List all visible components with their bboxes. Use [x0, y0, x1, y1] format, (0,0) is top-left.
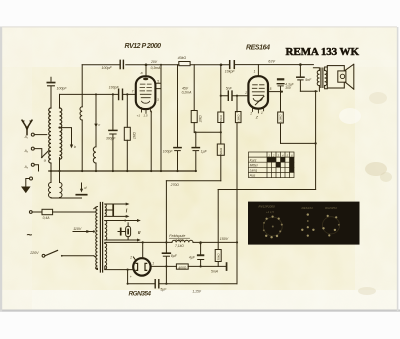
switch a	[42, 151, 49, 157]
resistor 40k (anode feed)	[179, 62, 190, 66]
HV winding	[105, 243, 107, 269]
svg-text:1: 1	[152, 261, 154, 265]
svg-text:RGN354: RGN354	[325, 206, 337, 210]
filter choke / field coil Feldspule	[172, 240, 193, 242]
trimmer capacitor 100pF	[47, 82, 56, 84]
wire: tube1 grid-cap drop x=146	[145, 65, 147, 77]
svg-text:50kΩ: 50kΩ	[219, 114, 223, 122]
wire: vertical antenna-cap branch x=82.2	[81, 65, 83, 171]
svg-text:Lang: Lang	[250, 169, 258, 173]
wire: B+ branch top y=180.8	[166, 180, 220, 182]
wire: rectifier anode lead x=142.7	[142, 242, 144, 258]
wire: trimmer chain x=51	[50, 77, 52, 171]
wire: return line y=190	[218, 189, 315, 191]
wire: 220V switch line y=255.8	[62, 255, 94, 257]
svg-text:30V: 30V	[285, 86, 292, 90]
wire: output tone-cap vertical x=300.4	[299, 65, 301, 92]
wire: tube2 grid line y=95.7	[221, 95, 249, 97]
svg-text:20V: 20V	[150, 60, 158, 64]
coil L2	[60, 108, 62, 159]
svg-text:1: 1	[261, 111, 263, 115]
tube socket legend panel (black)	[248, 202, 360, 245]
svg-text:2: 2	[249, 111, 252, 115]
wire: coupling coil bottom y=198	[51, 197, 82, 199]
coil L3 (coupling below bus)	[49, 183, 52, 198]
coil L1	[49, 108, 51, 163]
svg-text:100pF: 100pF	[109, 86, 120, 90]
wire: B+ field-coil line y=242.4	[107, 241, 238, 243]
wire: screen divider vertical x=194.2	[193, 65, 195, 133]
fuse 0,4A	[42, 209, 53, 214]
heater winding II	[105, 221, 107, 241]
capacitor 4.3uF 30V (cathode bypass)	[277, 78, 284, 80]
socket view RES164	[307, 213, 309, 215]
svg-text:b: b	[74, 145, 76, 149]
svg-text:1 2 3 4 5 6: 1 2 3 4 5 6	[268, 153, 293, 157]
svg-text:100pF: 100pF	[163, 150, 174, 154]
terminal A2	[31, 147, 34, 150]
capacitor 300pF (padding, x=112.9)	[109, 129, 117, 131]
svg-text:2MΩ: 2MΩ	[199, 115, 203, 123]
svg-text:1µF: 1µF	[201, 150, 208, 154]
output transformer T2	[313, 68, 319, 91]
transformer core	[100, 203, 102, 273]
capacitor 5uF (series, bottom return)	[155, 280, 159, 288]
svg-text:Aus: Aus	[249, 174, 256, 178]
svg-text:1MΩ: 1MΩ	[132, 132, 136, 139]
svg-text:RGN354: RGN354	[129, 291, 152, 298]
svg-text:5: 5	[157, 80, 159, 84]
tube RV12P2000 (U1)	[136, 76, 156, 109]
wire: speaker B+ drop x=315.6	[315, 91, 317, 189]
antenna	[22, 120, 32, 134]
svg-text:5nF: 5nF	[226, 87, 233, 91]
svg-text:100pF: 100pF	[102, 66, 113, 70]
wire: electrolytic branch x=200.6	[200, 242, 202, 266]
svg-text:0,3MΩ: 0,3MΩ	[236, 114, 240, 123]
heater cap to chassis	[106, 209, 113, 211]
svg-text:RES164: RES164	[246, 45, 270, 52]
resistor 50k (lower divider)	[217, 144, 224, 155]
capacitor 100pF (top left, series in B+ rail)	[120, 60, 123, 68]
resistor 30k bleeder	[215, 250, 221, 262]
switch arrow d + earth bar	[81, 183, 83, 190]
resistor 0.3M (grid return)	[235, 112, 241, 123]
svg-text:RV12P2000: RV12P2000	[259, 205, 275, 209]
wire: 30k feed x=218.2	[217, 190, 219, 267]
svg-text:270Ω: 270Ω	[170, 183, 180, 187]
svg-text:Kurz: Kurz	[250, 158, 257, 162]
capacitor 5nF (tube2 grid series)	[228, 91, 232, 100]
wire: A3 lead	[34, 165, 38, 171]
svg-text:7,1kΩ: 7,1kΩ	[175, 244, 184, 248]
terminal A1	[31, 133, 34, 136]
svg-text:RV12 P 2000: RV12 P 2000	[125, 43, 162, 50]
wire: IF coupling vertical x=177.5	[177, 65, 179, 171]
svg-text:Mittel: Mittel	[250, 164, 258, 168]
svg-text:0,3mA: 0,3mA	[151, 66, 162, 70]
power transformer T1 primary	[96, 207, 98, 270]
svg-text:1,15V: 1,15V	[192, 290, 201, 294]
svg-text:5mA: 5mA	[211, 270, 219, 274]
svg-text:50kΩ: 50kΩ	[219, 147, 223, 155]
svg-text:6.000: 6.000	[175, 238, 183, 242]
svg-text:100pF: 100pF	[57, 87, 68, 91]
wire: coupling coil drops below bus	[51, 171, 60, 198]
chassis bar (B- to chassis)	[226, 262, 228, 271]
tube RES164 (U2)	[248, 76, 268, 108]
capacitor 5nF (tone, x=300.4)	[297, 76, 304, 78]
wire: AF cap vertical x=195.8	[195, 132, 197, 171]
switch arrow c	[94, 124, 97, 128]
resistor 50k (upper divider)	[218, 112, 224, 123]
svg-text:3: 3	[157, 98, 159, 102]
svg-text:400Ω: 400Ω	[178, 266, 187, 270]
svg-text:5nF: 5nF	[305, 78, 312, 82]
socket view RGN354	[322, 217, 339, 234]
switch arrow b	[60, 128, 72, 145]
svg-text:0,4A: 0,4A	[43, 216, 51, 220]
svg-text:63V: 63V	[268, 60, 275, 64]
svg-text:1,5: 1,5	[143, 114, 148, 118]
wire: A2 lead to switch	[34, 149, 42, 157]
svg-text:2: 2	[129, 256, 132, 260]
capacitor 100pF (IF, x=177.5)	[174, 147, 181, 149]
wire: padding cap vertical x=112.9	[112, 94, 114, 171]
coil L4 (coupling below bus)	[60, 183, 63, 198]
resistor 400 ohm	[176, 264, 188, 269]
svg-text:~: ~	[27, 230, 33, 241]
wire: tube1 cathode return x=151.2	[150, 112, 152, 172]
svg-text:30kΩ: 30kΩ	[216, 253, 220, 261]
wire: chassis bus y=171	[49, 170, 196, 172]
mains terminal	[29, 211, 32, 214]
dial lamp	[118, 223, 128, 240]
wire: top anode/B+ rail y=64.5	[82, 64, 313, 66]
wire: divider chain x=220.8	[220, 65, 222, 181]
wire: bottom return y=283.7	[128, 283, 237, 285]
svg-text:A₃: A₃	[24, 165, 29, 169]
wire: screen divider link y=132.3	[194, 131, 221, 133]
socket view RV12P2000	[263, 217, 282, 236]
wire: oscillator vertical x=96	[95, 94, 97, 171]
svg-text:4µF: 4µF	[189, 255, 196, 259]
heater winding I	[105, 204, 107, 216]
wire: grid leak vertical x=127.3	[126, 94, 128, 171]
svg-text:+: +	[130, 275, 132, 279]
wire: tube2 feedback y=141	[281, 142, 316, 144]
svg-text:RES164: RES164	[302, 206, 314, 210]
220V terminal	[42, 254, 45, 257]
capacitor 10kpF (coupling, series top rail)	[230, 61, 235, 69]
wire: aerial coil top feed x=57.8	[59, 94, 61, 171]
capacitor 8uF (second filter, x=200.6)	[197, 254, 204, 256]
svg-text:+1 1,5: +1 1,5	[266, 210, 274, 214]
wire: tube2 anode to junction y=91.5	[268, 91, 282, 93]
scan edge shadows	[0, 310, 400, 312]
svg-text:A₁: A₁	[24, 135, 28, 139]
svg-text:0,2mA: 0,2mA	[182, 91, 193, 95]
scanner smudges	[369, 92, 387, 104]
wire: anode decoupling vertical x=161	[155, 65, 161, 171]
capacitor 100pF (tube1 grid coupling)	[119, 89, 123, 99]
wire: tube1 grid line y=94.4	[60, 93, 136, 95]
loudspeaker	[327, 66, 344, 88]
terminal A3	[31, 163, 34, 166]
svg-text:REMA 133 WK: REMA 133 WK	[286, 46, 360, 58]
svg-text:a: a	[44, 158, 46, 162]
secondary winding	[325, 70, 327, 85]
svg-text:2: 2	[244, 91, 247, 95]
coil (oscillator x=96)	[93, 147, 96, 163]
svg-text:5µF: 5µF	[160, 288, 167, 292]
wire: rectifier cathode line y=266.4	[151, 265, 226, 267]
svg-text:10kpF: 10kpF	[225, 70, 236, 74]
band switch table	[249, 152, 295, 178]
svg-text:220V: 220V	[29, 251, 39, 255]
svg-text:c: c	[98, 123, 100, 127]
svg-text:40kΩ: 40kΩ	[178, 56, 187, 60]
svg-text:8µF: 8µF	[171, 254, 178, 258]
wire: tube2 grid-cap drop x=258.4	[257, 65, 259, 77]
svg-text:0,1MΩ: 0,1MΩ	[279, 114, 283, 123]
coil (HF choke x=82.2)	[80, 107, 82, 120]
svg-text:a: a	[141, 71, 143, 75]
svg-text:1: 1	[254, 69, 256, 73]
wire: long dropper vertical x=237	[236, 96, 238, 284]
capacitor 1uF (AF, x=195.8)	[192, 147, 199, 149]
svg-text:150V: 150V	[220, 237, 229, 241]
rectifier tube RGN354 (U3)	[133, 258, 150, 275]
wire: tube2 cathode resistor branch x=280.5	[280, 92, 282, 144]
wire: main B- vertical x=166.4	[165, 181, 167, 284]
ground (aerial side)	[26, 179, 30, 187]
svg-text:1: 1	[151, 110, 153, 114]
wire: output cap to speaker-drop y=91.2	[300, 90, 317, 92]
resistor 0.1M (cathode)	[278, 112, 284, 123]
resistor 1M grid leak	[124, 127, 130, 140]
wire: A1 lead	[34, 134, 47, 136]
svg-text:300pF: 300pF	[106, 137, 116, 141]
mains switch	[45, 250, 58, 255]
terminal earth	[30, 177, 33, 180]
capacitor 8uF (first filter, x=166.4)	[163, 252, 171, 254]
wire: 110V tap y=231.5	[73, 231, 94, 233]
wire: mains fuse line y=212	[32, 211, 94, 213]
svg-text:+1: +1	[137, 114, 141, 118]
svg-text:110V: 110V	[73, 227, 82, 231]
arrow 110V tap	[86, 230, 90, 233]
resistor 2M (screen)	[191, 111, 197, 123]
svg-text:5: 5	[270, 87, 272, 91]
svg-text:7: 7	[132, 89, 134, 93]
